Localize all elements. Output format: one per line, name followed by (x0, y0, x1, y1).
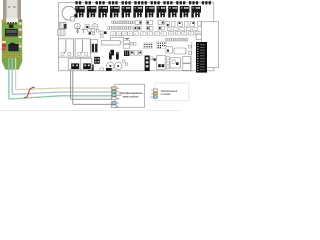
svg-text:T1: T1 (117, 103, 119, 105)
adapter PCB (2, 20, 22, 70)
bits right of cluster (100, 31, 106, 37)
jumper dot grid J2 (157, 42, 167, 49)
row of L-boxes y31 right (169, 32, 200, 35)
stack boxes x123 (123, 40, 136, 48)
row of small boxes y21 right side (166, 21, 201, 26)
pin RX (112, 97, 121, 100)
pin OT1 (112, 102, 120, 105)
relay K1 boxes with dot (135, 21, 141, 25)
pin TX (112, 90, 121, 93)
svg-text:T2: T2 (117, 106, 119, 108)
trimmer pot VR2 (92, 24, 98, 30)
pin GND (112, 94, 122, 97)
header row H2 (108, 27, 132, 30)
white box above big connector (196, 34, 205, 39)
wire 5V yellow (16, 58, 113, 90)
crossover mark red (24, 87, 35, 97)
switch box S1 (58, 39, 73, 57)
pin 5V (112, 87, 120, 90)
capacitor pair in box (91, 40, 98, 53)
pin n10 (150, 96, 157, 99)
component with dot x166 (166, 47, 172, 53)
small box beside circle (71, 17, 75, 21)
switch box S2 (75, 39, 90, 57)
boxes rows y29 and y32 mid board (111, 32, 138, 36)
squares cluster (88, 29, 99, 35)
IC with hatch below circle (59, 22, 66, 28)
svg-text:GND: GND (117, 95, 122, 97)
main IC U1 (5, 29, 18, 37)
terminal box U5 (155, 83, 189, 100)
header row H3 (165, 38, 188, 41)
red jumper bit (2, 48, 5, 51)
capacitors C5 C6 black capsules (109, 52, 119, 60)
relay circles with dots (107, 60, 128, 70)
USB tongue pins (6, 18, 18, 24)
trimmer pot VR1 (74, 23, 80, 29)
crystal X1 (9, 25, 13, 28)
row of small boxes y28 right (167, 28, 197, 31)
wide white rect mid (101, 41, 120, 45)
transformer circle C1 (62, 6, 77, 20)
bottom edge bits (100, 68, 112, 71)
black terminal block T3 (94, 57, 100, 64)
jumper between pots (85, 25, 90, 29)
trace line and pads x191 (188, 42, 191, 72)
pin n1 (151, 89, 157, 92)
T component (125, 38, 130, 41)
top row of tiny black squares (75, 1, 211, 4)
passives right column (19, 23, 22, 48)
black block x110 (110, 50, 114, 56)
gold pad left (2, 19, 5, 22)
solder pads row (3, 54, 21, 58)
black connector CN7 (145, 56, 150, 72)
svg-text:через кабель: через кабель (122, 96, 139, 99)
black striped connector x124 (124, 51, 129, 57)
svg-text:к плате: к плате (161, 93, 171, 96)
wire GND green (9, 58, 112, 99)
black terminal block T4 (88, 65, 94, 71)
wire TX blue (12, 58, 112, 94)
white box with 2 dots (157, 56, 166, 70)
header row H1 (112, 21, 134, 24)
stacked white boxes x183 (183, 56, 191, 70)
LED red (2, 44, 6, 47)
rounded rect x174 (174, 48, 186, 54)
small black part (10, 43, 14, 47)
mains cell boxes under switches (68, 58, 92, 70)
converter box U4 (115, 84, 145, 107)
cluster box x170 (166, 57, 180, 69)
boxes row y50 x130 (130, 51, 142, 55)
boxes row y32 mid (141, 32, 167, 35)
pin OT2 (112, 105, 120, 108)
rounded white box (110, 37, 123, 42)
relay K3 box with dot (158, 21, 164, 25)
side bracket plate (202, 22, 219, 68)
relay K2 box with dot (146, 21, 153, 25)
transistors Q1 Q2 (75, 29, 85, 34)
pin n9 (151, 92, 157, 95)
big black edge connector CN9 (196, 42, 207, 73)
small boxes with dots row y26 (134, 26, 165, 30)
IC U2 with hatch (58, 29, 65, 35)
wire OT2 grey (73, 71, 112, 105)
bottom rule (0, 109, 182, 111)
wire OT1 grey (71, 71, 112, 99)
top row black connector modules (75, 6, 201, 18)
screw terminal block A (71, 63, 79, 69)
main control board PCB outline (59, 3, 214, 71)
jumper dot grid J1 (143, 43, 152, 49)
big IC U3 (8, 44, 18, 51)
screw terminal block B (83, 63, 91, 69)
passives left column (2, 38, 6, 44)
small bits x150 y57 (150, 57, 156, 61)
USB plug metal shell (3, 0, 21, 20)
